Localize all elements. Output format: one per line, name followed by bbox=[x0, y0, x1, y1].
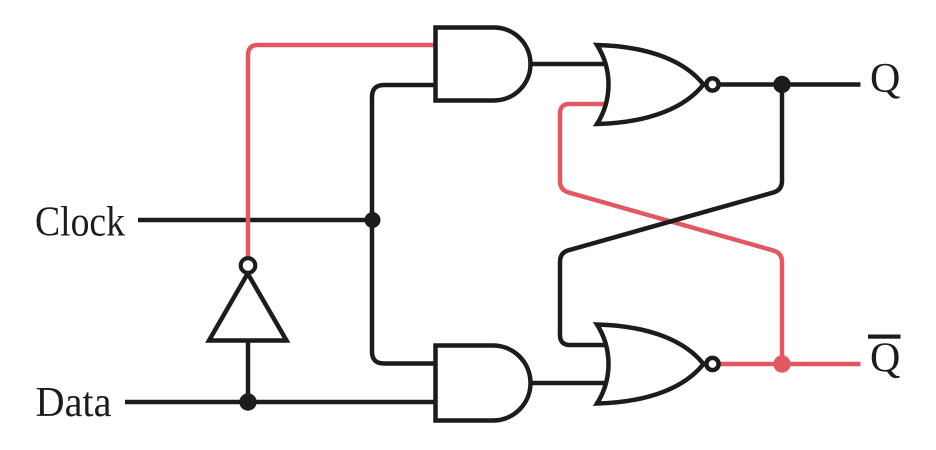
wire Q output bbox=[719, 82, 861, 87]
and-gate U3 bbox=[436, 346, 531, 421]
wire inverted clock (red) from inverter to AND U2 bbox=[248, 45, 438, 258]
nor-gate U5 bubble bbox=[706, 358, 718, 370]
wire Qbar feedback (red) from node QB to NOR U4 lower input bbox=[560, 104, 782, 364]
wire data to inverter input bbox=[246, 340, 251, 402]
svg-text:Q: Q bbox=[870, 336, 900, 382]
svg-text:Q: Q bbox=[870, 56, 900, 102]
inverter U1 bubble bbox=[241, 258, 256, 273]
nor-gate U4 bubble bbox=[706, 78, 718, 90]
wire Qbar output (red) bbox=[719, 362, 861, 367]
wire AND U2 output to NOR U4 input bbox=[528, 62, 607, 67]
nor-gate U5 body bbox=[597, 325, 704, 404]
node clock junction bbox=[365, 212, 381, 228]
label Qbar overline bbox=[868, 335, 901, 339]
wire AND U3 output to NOR U5 input bbox=[528, 381, 607, 386]
and-gate U2 bbox=[436, 28, 531, 101]
wire clock vertical to both AND gates bbox=[372, 85, 438, 364]
wire clock input bbox=[138, 218, 372, 223]
svg-text:Clock: Clock bbox=[35, 200, 125, 246]
node data junction bbox=[239, 393, 256, 410]
svg-text:Data: Data bbox=[36, 380, 112, 426]
nor-gate U4 body bbox=[597, 45, 704, 124]
inverter U1 triangle bbox=[209, 274, 287, 341]
wire Q feedback from node Q to NOR U5 upper input bbox=[560, 85, 782, 346]
node QB junction (red) bbox=[773, 355, 790, 372]
node Q junction bbox=[773, 76, 790, 93]
wire data input bbox=[125, 400, 438, 405]
